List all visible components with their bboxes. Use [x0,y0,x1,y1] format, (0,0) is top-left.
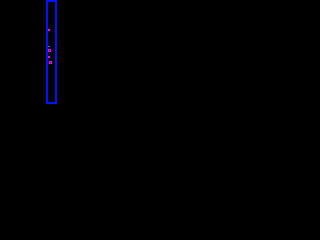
cursor tick (light blue mark) [48,46,50,47]
pad marker S1 (hollow magenta square) [48,49,51,52]
component body outline (blue rectangle) [46,0,57,104]
pin marker P1 (solid magenta dot) [48,29,50,31]
pin marker P2 (solid magenta dot) [48,56,50,58]
pad marker S2 (hollow magenta square) [49,61,52,64]
